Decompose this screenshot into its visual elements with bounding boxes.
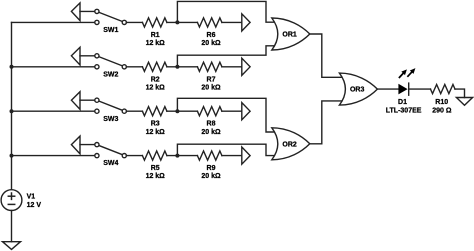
- wire OR1 output to OR3 input: [310, 34, 343, 77]
- wire left supply bus vertical: [11, 22, 13, 189]
- wire R3 to junction to R8: [167, 110, 198, 112]
- OR gate OR2: [272, 128, 310, 160]
- resistor R8: [197, 107, 222, 136]
- wire R2 to junction to R7: [167, 66, 198, 68]
- svg-text:R2: R2: [151, 76, 160, 83]
- svg-text:20 kΩ: 20 kΩ: [201, 173, 221, 180]
- svg-text:R9: R9: [207, 165, 216, 172]
- svg-text:OR3: OR3: [350, 87, 365, 94]
- svg-text:OR2: OR2: [282, 141, 297, 148]
- svg-text:12 kΩ: 12 kΩ: [146, 129, 166, 136]
- switch SW3: [71, 92, 126, 123]
- resistor R2: [142, 62, 167, 91]
- wire bus to SW2: [12, 66, 95, 68]
- wire R1 to junction to R6: [167, 21, 198, 23]
- wire SW4 to R5: [126, 155, 142, 157]
- resistor R7: [197, 62, 222, 91]
- ground (below V1): [3, 242, 21, 250]
- wire bus to SW1: [12, 21, 95, 23]
- svg-text:OR1: OR1: [282, 32, 297, 39]
- svg-text:20 kΩ: 20 kΩ: [201, 129, 221, 136]
- svg-text:R8: R8: [207, 121, 216, 128]
- svg-text:20 kΩ: 20 kΩ: [201, 84, 221, 91]
- wire LED to R10: [409, 88, 431, 90]
- svg-text:R6: R6: [207, 32, 216, 39]
- svg-text:12 kΩ: 12 kΩ: [146, 173, 166, 180]
- svg-text:12 kΩ: 12 kΩ: [146, 84, 166, 91]
- svg-text:R1: R1: [151, 32, 160, 39]
- OR gate OR3: [339, 73, 377, 105]
- svg-text:SW3: SW3: [103, 116, 118, 123]
- resistor R1: [142, 18, 167, 47]
- OR gate OR1: [272, 18, 310, 50]
- buffer amplifier row 2: [242, 58, 250, 75]
- svg-text:SW4: SW4: [103, 160, 118, 167]
- buffer amplifier row 3: [242, 103, 250, 120]
- wire junction loop to OR gate input (row 3): [177, 98, 276, 132]
- wire SW3 to R3: [126, 110, 142, 112]
- svg-text:LTL-307EE: LTL-307EE: [386, 107, 422, 114]
- junction on bus at SW3 row: [10, 109, 14, 113]
- svg-text:290 Ω: 290 Ω: [432, 107, 452, 114]
- junction on bus at SW2 row: [10, 65, 14, 69]
- wire bus to SW3: [12, 110, 95, 112]
- ground (right): [456, 98, 472, 106]
- wire junction loop to OR gate input (row 1): [177, 1, 276, 22]
- junction on bus at SW4 row: [10, 154, 14, 158]
- voltage source V1 12 V: [1, 190, 41, 211]
- wire R7 to buffer: [222, 66, 242, 68]
- switch SW1: [71, 3, 126, 34]
- junction node R2/R7: [175, 65, 179, 69]
- svg-text:12 V: 12 V: [27, 202, 42, 209]
- svg-text:R3: R3: [151, 121, 160, 128]
- wire R5 to junction to R9: [167, 155, 198, 157]
- wire junction loop to OR gate input (row 4): [177, 144, 276, 155]
- junction node R3/R8: [175, 109, 179, 113]
- svg-text:20 kΩ: 20 kΩ: [201, 40, 221, 47]
- resistor R3: [142, 107, 167, 136]
- LED D1 LTL-307EE: [386, 66, 422, 114]
- junction node R1/R6: [175, 20, 179, 24]
- wire OR2 output to OR3 input: [310, 101, 343, 144]
- switch SW4: [71, 136, 126, 167]
- wire R9 to buffer: [222, 155, 242, 157]
- resistor R6: [197, 18, 222, 47]
- wire junction loop to OR gate input (row 2): [177, 46, 276, 67]
- wire R6 to buffer: [222, 21, 242, 23]
- svg-text:D1: D1: [398, 99, 407, 106]
- svg-text:R10: R10: [435, 99, 448, 106]
- resistor R10: [431, 85, 456, 115]
- svg-text:R5: R5: [151, 165, 160, 172]
- wire bus to SW4: [12, 155, 95, 157]
- svg-text:V1: V1: [27, 194, 36, 201]
- svg-text:SW2: SW2: [103, 71, 118, 78]
- wire SW1 to R1: [126, 21, 142, 23]
- svg-text:SW1: SW1: [103, 27, 118, 34]
- wire V1 to ground: [11, 211, 13, 242]
- wire OR3 output to LED: [377, 88, 398, 90]
- svg-text:R7: R7: [207, 76, 216, 83]
- wire R10 to ground: [455, 89, 465, 97]
- buffer amplifier row 4: [242, 147, 250, 164]
- switch SW2: [71, 47, 126, 78]
- resistor R5: [142, 151, 167, 180]
- junction node R5/R9: [175, 154, 179, 158]
- wire SW2 to R2: [126, 66, 142, 68]
- wire R8 to buffer: [222, 110, 242, 112]
- buffer amplifier row 1: [242, 14, 250, 31]
- resistor R9: [197, 151, 222, 180]
- svg-text:12 kΩ: 12 kΩ: [146, 40, 166, 47]
